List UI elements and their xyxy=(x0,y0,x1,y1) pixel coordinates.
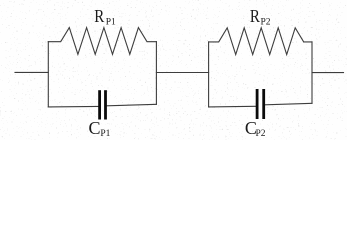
wire: box1 bottom-right segment from capacitor CP1 xyxy=(107,104,157,106)
label CP2 xyxy=(245,118,266,139)
wire: right output lead xyxy=(312,72,344,74)
label CP1 xyxy=(89,118,111,139)
wire: box2 right vertical edge xyxy=(311,42,313,103)
wire: left input lead xyxy=(15,71,48,73)
wire: box2 bottom-left segment to capacitor CP2 xyxy=(209,105,256,108)
svg-text:P1: P1 xyxy=(100,129,110,139)
wire: box1 bottom-left segment to capacitor CP1 xyxy=(48,105,98,108)
wire: box1 left vertical edge xyxy=(47,42,49,107)
label RP1 xyxy=(94,6,116,27)
label RP2 xyxy=(250,6,271,27)
capacitor CP2 plates xyxy=(257,89,264,119)
svg-text:R: R xyxy=(94,6,104,26)
resistor RP1 (zigzag, top branch of box 1) xyxy=(48,28,156,55)
svg-text:R: R xyxy=(250,6,260,26)
wire: box2 left vertical edge xyxy=(208,42,210,107)
resistor RP2 (zigzag, top branch of box 2) xyxy=(209,28,312,55)
svg-text:P2: P2 xyxy=(256,129,266,139)
wire: box2 bottom-right segment from capacitor CP2 xyxy=(265,103,312,105)
wire: box1 right vertical edge xyxy=(155,42,157,105)
svg-text:P2: P2 xyxy=(261,18,271,28)
capacitor CP1 plates xyxy=(100,90,106,119)
wire: middle link between box1 and box2 xyxy=(156,72,208,74)
svg-text:C: C xyxy=(89,118,101,138)
svg-text:P1: P1 xyxy=(106,17,116,27)
